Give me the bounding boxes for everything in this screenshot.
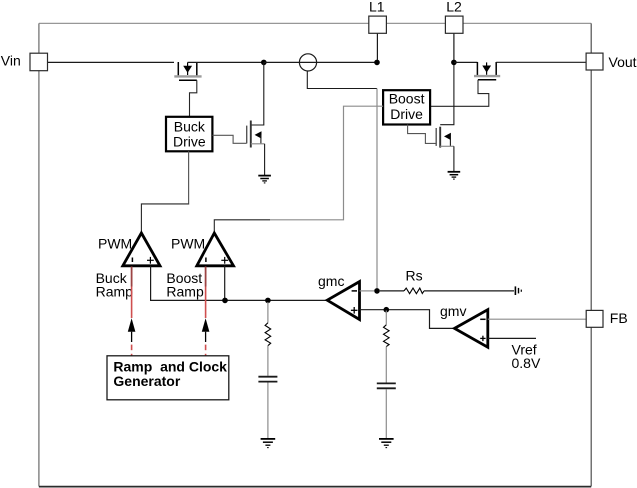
svg-text:Ramp: Ramp bbox=[166, 283, 204, 299]
wire Q2 gate lead to Boost Drive bbox=[430, 80, 489, 107]
svg-text:Rs: Rs bbox=[406, 268, 423, 284]
wire Q1 drain to node SW1 bbox=[188, 61, 264, 63]
transistor Q2 boost high-side PMOS bbox=[474, 62, 500, 80]
svg-text:gmv: gmv bbox=[440, 303, 466, 319]
compensation network RC1 bbox=[258, 302, 277, 438]
pin plus gmc bbox=[351, 307, 358, 314]
node gmc plus junction bbox=[384, 307, 390, 313]
ramp signal boost (red) bbox=[202, 267, 210, 357]
Boost Drive block bbox=[383, 90, 430, 124]
node SW1 junction bbox=[261, 60, 267, 66]
pin Vin bbox=[30, 53, 48, 70]
svg-text:Vout: Vout bbox=[609, 54, 637, 70]
svg-text:gmc: gmc bbox=[318, 273, 344, 289]
svg-text:Drive: Drive bbox=[390, 106, 423, 122]
node gmc minus junction bbox=[374, 288, 380, 294]
wire gmv plus Vref bbox=[488, 337, 536, 339]
wire L2 to Q2 bbox=[454, 61, 478, 63]
svg-text:Boost: Boost bbox=[389, 90, 425, 106]
svg-text:PWM: PWM bbox=[98, 236, 132, 252]
svg-text:PWM: PWM bbox=[171, 236, 205, 252]
wire Buck Drive to Q3 gate bbox=[212, 135, 246, 143]
wire current sense signal down to gmc bbox=[376, 89, 378, 289]
wire buck PWM plus to bus bbox=[151, 266, 328, 301]
op-amp gmv bbox=[455, 310, 488, 348]
compensation network RC2 bbox=[377, 311, 396, 439]
svg-text:0.8V: 0.8V bbox=[512, 355, 541, 371]
wire current sense output bbox=[307, 71, 377, 89]
wire Q1 gate lead to Buck Drive bbox=[190, 80, 197, 117]
wire Q2 to Vout bbox=[496, 61, 586, 63]
Ramp and Clock Generator block bbox=[107, 356, 229, 400]
pin L1 bbox=[369, 16, 387, 33]
wire boost PWM output to Boost Drive bbox=[214, 220, 270, 233]
svg-text:L1: L1 bbox=[369, 0, 385, 15]
transistor Q3 buck low-side NMOS bbox=[247, 62, 265, 175]
op-amp PWM boost comparator bbox=[197, 233, 234, 266]
op-amp gmc bbox=[327, 282, 359, 320]
ramp signal buck (red) bbox=[128, 267, 136, 357]
wire L1 stub bbox=[376, 33, 378, 60]
pin minus tick boost PWM bbox=[205, 258, 207, 263]
pin plus boost PWM bbox=[221, 257, 228, 264]
svg-text:Ramp: Ramp bbox=[96, 283, 134, 299]
svg-text:Generator: Generator bbox=[113, 373, 180, 389]
pin minus tick buck PWM bbox=[131, 258, 133, 263]
Buck Drive block bbox=[166, 117, 212, 152]
op-amp PWM buck comparator bbox=[123, 233, 160, 266]
node boost plus junction bbox=[222, 298, 228, 304]
wire Boost Drive to Q4 gate bbox=[408, 125, 437, 144]
wire SW1 to current sense bbox=[264, 61, 377, 63]
svg-text:L2: L2 bbox=[446, 0, 462, 15]
ground G3 bbox=[261, 439, 276, 448]
node L2 junction bbox=[451, 60, 457, 66]
ground G4 bbox=[379, 439, 394, 448]
svg-text:Buck: Buck bbox=[174, 119, 206, 135]
wire gmv minus to FB bbox=[488, 318, 586, 320]
pin plus buck PWM bbox=[147, 257, 154, 264]
pin Vout bbox=[586, 53, 603, 70]
ground G1 bbox=[258, 176, 271, 183]
wire L2 stub bbox=[453, 33, 455, 62]
wire to Rs bbox=[380, 290, 404, 292]
wire Vin rail bbox=[48, 61, 175, 63]
pin minus gmc bbox=[352, 290, 357, 292]
node RC1 junction bbox=[265, 298, 271, 304]
svg-text:FB: FB bbox=[610, 310, 628, 326]
ground G2 bbox=[448, 172, 461, 179]
transistor Q4 boost low-side NMOS bbox=[436, 65, 454, 171]
pin FB bbox=[586, 310, 603, 327]
node L1 junction bbox=[374, 60, 380, 66]
current sensor circle bbox=[299, 54, 316, 71]
wire gmc minus input bbox=[360, 290, 375, 292]
wire boost PWM plus drop bbox=[224, 266, 226, 301]
svg-text:Drive: Drive bbox=[173, 134, 206, 150]
wire gmc plus to gmv output bbox=[360, 310, 455, 329]
wire Rs to ground bbox=[424, 290, 514, 292]
pin L2 bbox=[445, 16, 463, 33]
pin minus gmv bbox=[480, 318, 485, 320]
wire Buck Drive to buck PWM output bbox=[188, 151, 190, 203]
IC boundary box bbox=[39, 22, 591, 24]
resistor Rs bbox=[404, 288, 424, 294]
ground G5 (signal ground right-facing) bbox=[515, 286, 521, 295]
svg-text:Vin: Vin bbox=[1, 53, 21, 69]
transistor Q1 buck high-side PMOS bbox=[174, 62, 201, 80]
pin plus gmv bbox=[480, 336, 485, 341]
